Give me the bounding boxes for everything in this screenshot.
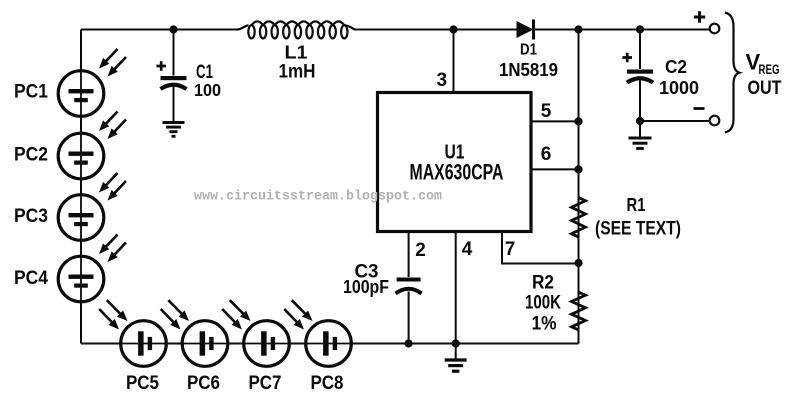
svg-text:1000: 1000 [659, 77, 699, 98]
wire output minus rail [640, 120, 710, 122]
svg-text:(SEE TEXT): (SEE TEXT) [595, 219, 681, 240]
ground at pin 4 [445, 344, 467, 372]
svg-text:PC8: PC8 [311, 373, 344, 394]
svg-text:1%: 1% [532, 313, 557, 334]
photocell PC2 [58, 112, 126, 179]
pin 5 of U1 [531, 101, 579, 122]
svg-text:PC6: PC6 [187, 373, 220, 394]
pin 4 of U1 [456, 232, 473, 344]
wire right column [578, 30, 580, 344]
wire top rail left segment [81, 29, 237, 31]
svg-text:1mH: 1mH [279, 62, 316, 83]
svg-text:C2: C2 [665, 56, 687, 77]
inductor L1 [237, 21, 355, 38]
terminal minus [694, 109, 720, 126]
wire top rail middle segment [355, 29, 518, 31]
photocell PC7 [222, 300, 289, 366]
svg-text:R2: R2 [532, 272, 554, 294]
svg-text:4: 4 [462, 239, 473, 260]
svg-text:R1: R1 [627, 194, 646, 215]
svg-text:PC2: PC2 [14, 145, 48, 166]
node at C3 bottom [405, 339, 413, 347]
node at pin 5 [574, 117, 582, 125]
pin 3 of U1 [437, 30, 454, 93]
node at C1 top [169, 25, 177, 33]
svg-text:3: 3 [437, 70, 448, 91]
photocell PC1 [58, 49, 126, 116]
output brace [725, 13, 739, 133]
pin 2 of U1 [409, 232, 426, 278]
svg-text:6: 6 [541, 144, 552, 165]
pin 7 of U1 [502, 232, 579, 264]
svg-text:PC7: PC7 [249, 373, 282, 394]
svg-text:OUT: OUT [748, 77, 782, 99]
svg-text:D1: D1 [520, 42, 537, 59]
ground at C1 [163, 123, 185, 137]
wire left rail [80, 30, 82, 344]
svg-text:PC4: PC4 [14, 268, 48, 289]
node at pin 4 ground [452, 339, 460, 347]
terminal plus [694, 11, 720, 33]
pin 6 of U1 [531, 144, 579, 169]
svg-text:PC3: PC3 [14, 206, 48, 227]
svg-text:100: 100 [194, 80, 221, 100]
svg-text:MAX630CPA: MAX630CPA [410, 160, 504, 185]
svg-text:www.circuitsstream.blogspot.co: www.circuitsstream.blogspot.com [194, 190, 442, 205]
node at C2 bottom [636, 117, 644, 125]
photocell PC5 [99, 300, 166, 366]
node at pin 6 [574, 165, 582, 173]
resistor R1 [572, 198, 586, 238]
diode D1 [517, 20, 534, 40]
photocell PC8 [284, 300, 351, 366]
svg-text:PC1: PC1 [14, 82, 48, 103]
svg-text:REG: REG [759, 62, 780, 77]
label VREG OUT [746, 50, 782, 100]
svg-text:100pF: 100pF [343, 277, 389, 297]
photocell PC3 [58, 173, 126, 240]
node at R1 R2 junction [574, 259, 582, 267]
svg-text:1N5819: 1N5819 [499, 59, 558, 80]
ground at C2 [629, 121, 652, 148]
svg-text:7: 7 [505, 239, 516, 260]
svg-text:2: 2 [415, 240, 426, 261]
svg-text:PC5: PC5 [126, 373, 159, 394]
node at pin 3 junction [449, 25, 457, 33]
svg-text:5: 5 [541, 101, 552, 122]
node after D1 [574, 25, 582, 33]
wire bottom rail [81, 343, 579, 345]
op-amp U1 box MAX630CPA [378, 93, 532, 232]
capacitor C1 [156, 30, 186, 122]
capacitor C2 [622, 30, 653, 122]
node at C2 top [636, 25, 644, 33]
photocell PC4 [58, 235, 126, 302]
capacitor C3 [396, 278, 422, 344]
resistor R2 [572, 292, 586, 330]
svg-text:L1: L1 [285, 43, 308, 63]
photocell PC6 [161, 300, 228, 366]
svg-text:100K: 100K [525, 291, 561, 313]
wire top rail right segment [534, 29, 711, 31]
